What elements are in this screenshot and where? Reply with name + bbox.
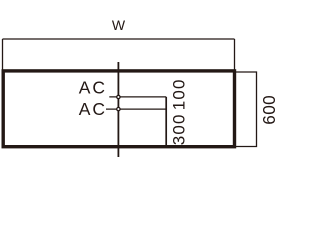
wire vertical centerline <box>117 62 119 157</box>
body outline (thick rectangle) <box>3 71 234 147</box>
wire 600 dimension bracket <box>235 72 257 147</box>
svg-text:AC: AC <box>79 99 107 119</box>
node AC lower terminal <box>117 107 120 110</box>
wire W dimension left extension <box>2 39 4 70</box>
svg-text:W: W <box>112 17 126 33</box>
node AC upper terminal <box>117 95 120 98</box>
svg-text:AC: AC <box>79 78 107 98</box>
svg-text:100: 100 <box>170 78 189 110</box>
svg-text:300: 300 <box>170 113 189 145</box>
svg-text:600: 600 <box>259 95 279 125</box>
wire AC lower lead <box>106 108 166 110</box>
wire W dimension right extension <box>234 39 236 70</box>
wire W dimension horizontal line <box>3 38 235 40</box>
wire AC upper lead <box>109 96 166 98</box>
wire right vertical drop <box>165 97 167 147</box>
